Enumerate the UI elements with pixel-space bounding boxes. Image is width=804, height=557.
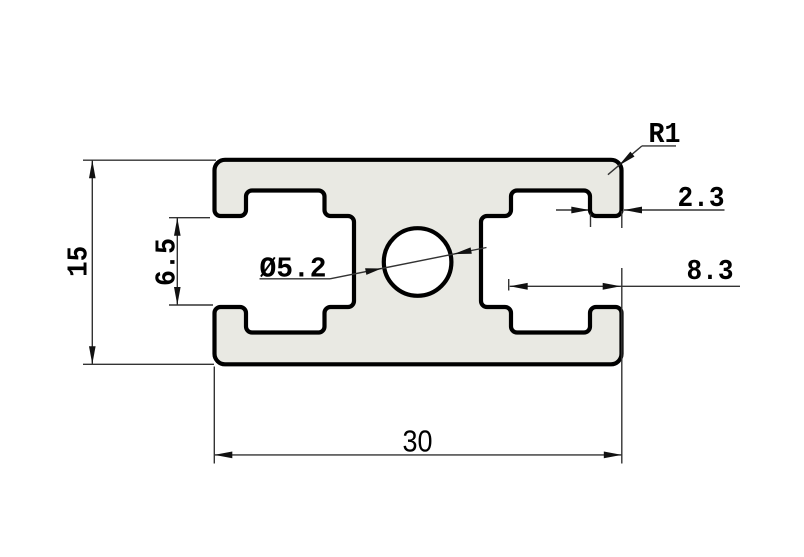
leader R1: [642, 145, 676, 147]
dim 6.5: extension lines: [169, 217, 210, 219]
svg-text:6.5: 6.5: [151, 238, 184, 286]
dim 30: lines: [213, 367, 215, 464]
leader Ø5.2: [260, 278, 331, 280]
profile body: 30x15 extrusion cross-section outline: [215, 160, 622, 364]
arrows dim 6.5: [174, 218, 181, 236]
arrow leader 5.2: [454, 247, 472, 254]
svg-text:30: 30: [403, 424, 433, 459]
svg-text:R1: R1: [649, 118, 681, 151]
svg-text:Ø5.2: Ø5.2: [260, 253, 327, 286]
svg-text:8.3: 8.3: [687, 255, 734, 288]
svg-text:2.3: 2.3: [678, 182, 725, 215]
dim 2.3: lines: [556, 209, 588, 211]
arrow leader R1: [619, 152, 635, 166]
arrows dim 30: [214, 452, 232, 459]
dim 6.5: dimension line: [176, 218, 178, 305]
arrows dim 2.3: [571, 207, 589, 214]
dim 15: dimension line: [91, 160, 93, 364]
dim 8.3: lines: [510, 285, 740, 287]
arrows dim 15: [89, 160, 96, 178]
center hole Ø5.2: [384, 228, 452, 296]
svg-text:15: 15: [63, 246, 96, 277]
dim 15: extension lines: [83, 159, 216, 161]
arrows dim 8.3: [510, 283, 528, 290]
